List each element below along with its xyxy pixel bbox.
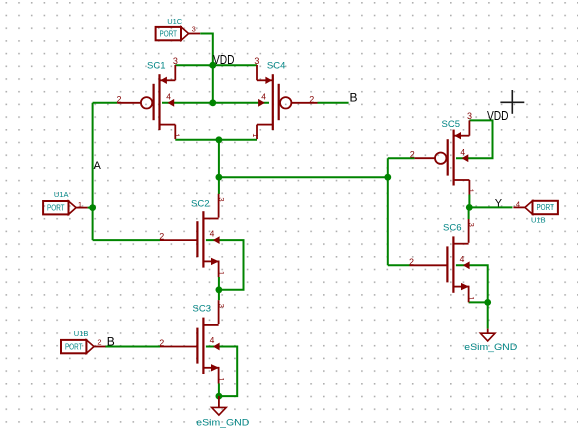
svg-text:2: 2: [309, 94, 314, 104]
svg-text:B: B: [350, 91, 358, 105]
wire SC5 drain to node Y: [468, 195, 470, 208]
svg-text:4: 4: [261, 92, 266, 102]
svg-text:2: 2: [410, 150, 415, 160]
wire U1A port to net A: [88, 207, 93, 209]
svg-text:2: 2: [159, 338, 164, 348]
svg-text:B: B: [107, 335, 115, 349]
svg-text:1: 1: [467, 296, 476, 300]
svg-text:4: 4: [460, 254, 465, 264]
svg-text:2: 2: [159, 232, 164, 242]
wire SC3 source to ground node: [218, 383, 220, 396]
svg-text:PORT: PORT: [160, 29, 178, 38]
transistor SC3 (NMOS, 4-terminal): [160, 300, 220, 383]
wire SC6 bulk loop: [456, 265, 488, 302]
junction SC6 source / ground: [484, 299, 491, 306]
svg-text:2: 2: [97, 338, 101, 347]
wire SC5 VDD loop source-bulk: [456, 120, 493, 158]
wire node Y to output port: [469, 206, 512, 208]
wire drain rail down to SC2 drain: [218, 140, 220, 194]
svg-text:3: 3: [217, 197, 226, 201]
transistor SC4 (PMOS, 4-terminal, mirrored): [257, 65, 318, 139]
svg-text:3: 3: [173, 56, 178, 66]
power symbol eSim_GND: [212, 396, 227, 415]
transistor SC1 (PMOS, 4-terminal): [117, 65, 175, 139]
svg-text:U1B: U1B: [531, 215, 546, 224]
svg-text:Y: Y: [495, 198, 503, 210]
svg-text:SC4: SC4: [267, 61, 285, 72]
wire VDD vertical to bulk rail: [212, 65, 214, 103]
wire SC6 source to ground node: [469, 301, 488, 303]
junction node Y: [466, 204, 473, 211]
svg-text:PORT: PORT: [65, 342, 83, 351]
transistor SC6 (NMOS, 4-terminal): [410, 219, 470, 302]
transistor SC2 (NMOS, 4-terminal): [160, 194, 220, 277]
svg-text:A: A: [94, 160, 102, 172]
wire PMOS bulk rail SC1-SC4: [162, 102, 269, 104]
svg-text:SC6: SC6: [443, 223, 461, 234]
connector port U1A: [43, 201, 88, 214]
svg-text:1: 1: [173, 133, 182, 137]
connector port U1B: [513, 201, 558, 214]
connector port U1C: [156, 27, 201, 40]
svg-text:3: 3: [254, 56, 259, 66]
wire net A to SC2 gate: [93, 239, 160, 241]
svg-text:3: 3: [217, 304, 226, 308]
svg-text:U1A: U1A: [54, 190, 69, 199]
svg-text:SC2: SC2: [191, 199, 209, 210]
svg-text:SC5: SC5: [442, 119, 460, 130]
wire output node vertical run: [387, 158, 389, 265]
wire VDD top rail SC1-SC4: [175, 64, 257, 66]
junction SC2 source node: [216, 286, 223, 293]
editor crosshair cursor: [500, 90, 524, 114]
svg-text:2: 2: [117, 94, 122, 104]
svg-text:SC1: SC1: [147, 61, 165, 72]
wire node Y down to SC6 drain: [468, 207, 470, 219]
junction bulk rail / VDD: [209, 99, 216, 106]
svg-text:4: 4: [460, 147, 465, 157]
wire branch to SC5 gate: [388, 157, 415, 159]
svg-text:PORT: PORT: [536, 203, 554, 212]
junction SC3 source / ground: [216, 393, 223, 400]
wire branch to SC6 gate: [388, 264, 410, 266]
svg-text:4: 4: [210, 229, 215, 239]
wire SC2 bulk-source loop: [206, 240, 244, 290]
junction PMOS drain rail: [216, 136, 223, 143]
wire SC3 bulk-source loop: [206, 347, 237, 397]
svg-text:VDD: VDD: [213, 52, 235, 67]
svg-text:2: 2: [409, 257, 414, 267]
wire net B to SC3 gate: [105, 346, 160, 348]
transistor SC5 (PMOS, 4-terminal): [415, 120, 470, 194]
svg-text:3: 3: [467, 111, 472, 121]
svg-text:1: 1: [217, 271, 226, 275]
junction VDD rail: [209, 62, 216, 69]
svg-text:3: 3: [467, 223, 476, 227]
svg-text:VDD: VDD: [487, 108, 509, 123]
junction net A / U1A: [89, 204, 96, 211]
wire SC4 gate to net B: [318, 102, 349, 104]
svg-text:4: 4: [516, 199, 520, 208]
wire SC1 gate wire: [93, 102, 118, 104]
svg-text:1: 1: [217, 377, 226, 381]
junction output node right: [384, 174, 391, 181]
svg-text:1: 1: [78, 200, 82, 209]
wire output node horizontal run: [219, 176, 388, 178]
wire U1C port to VDD node: [200, 34, 213, 66]
svg-text:eSim_GND: eSim_GND: [464, 342, 517, 353]
junction output node left: [216, 174, 223, 181]
svg-text:1: 1: [467, 189, 476, 193]
svg-text:4: 4: [210, 335, 215, 345]
connector port U1B: [61, 340, 106, 353]
wire ground node drop SC6: [487, 302, 489, 328]
svg-text:1: 1: [251, 133, 260, 137]
wire PMOS drain rail SC1-SC4: [175, 139, 257, 141]
power symbol eSim_GND: [480, 329, 495, 341]
svg-text:SC3: SC3: [193, 304, 211, 315]
svg-text:U1C: U1C: [167, 17, 183, 26]
svg-text:eSim_GND: eSim_GND: [196, 417, 249, 428]
wire net A vertical: [92, 103, 94, 240]
wire SC2 source to SC3 drain: [218, 277, 220, 300]
svg-text:4: 4: [166, 92, 171, 102]
svg-text:PORT: PORT: [47, 203, 65, 212]
svg-text:U1B: U1B: [74, 329, 89, 338]
svg-text:3: 3: [192, 25, 196, 34]
